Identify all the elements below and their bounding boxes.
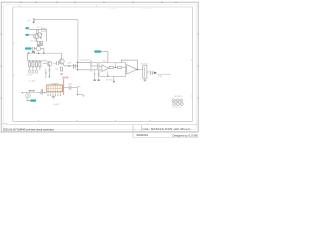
junction dot feedback (115, 67, 116, 68)
IC U3 inner bar (47, 87, 62, 89)
capacitor C8 shunt (94, 70, 96, 79)
wire VR1 bottom (144, 78, 146, 80)
svg-text:1uF: 1uF (68, 83, 72, 85)
capacitor Cc3 (90, 68, 92, 71)
capacitor C5 bias (45, 69, 47, 77)
tick on strip line (146, 123, 148, 126)
op-amp U1 (102, 65, 109, 72)
component X1 (41, 28, 45, 31)
IC U3 pins bottom (48, 92, 61, 95)
capacitor C11 input (41, 91, 43, 95)
svg-text:Designed by S.O.MD: Designed by S.O.MD (173, 134, 198, 138)
capacitor C6 (57, 61, 59, 65)
wire tie vertical (98, 62, 100, 69)
pinout case E (176, 102, 179, 105)
svg-text:(8 Ω): (8 Ω) (158, 76, 162, 78)
node dot q2 (40, 43, 41, 44)
resistor R6 (39, 62, 41, 67)
svg-text:2021.01.26 TL084/2 unit test c: 2021.01.26 TL084/2 unit test circuit cor… (3, 127, 54, 131)
net label AM (teal) (25, 34, 29, 36)
svg-text:1m 1/4: 1m 1/4 (27, 75, 33, 77)
wire antenna horizontal (35, 19, 78, 21)
wire from AM label (29, 34, 34, 36)
wire +9.4V (red) (63, 79, 65, 95)
svg-text:ant: ant (28, 19, 31, 22)
wire antenna vertical drop (77, 20, 79, 63)
potentiometer VR1 (143, 66, 147, 79)
input terminal arrow (22, 92, 24, 94)
node dot q2b (41, 33, 42, 34)
net label FM (teal) (25, 27, 29, 29)
ground T2 (60, 74, 63, 76)
wire drop to rail (43, 48, 45, 53)
IC U3 TL082 (orange) (47, 85, 63, 92)
ground C9 (98, 79, 100, 81)
wire R9 out (121, 66, 125, 68)
wire T1 base (43, 63, 47, 65)
capacitor C1 (33, 47, 35, 50)
capacitor Cc2 (90, 64, 92, 67)
junction dot emitter bus (68, 65, 69, 66)
polarity mark C11 (41, 90, 43, 91)
net label LINE1 (teal) (25, 47, 32, 49)
ground output (82, 95, 84, 98)
op-amp U2 power (127, 65, 137, 75)
pinout case B (176, 99, 179, 102)
svg-text:2010/10/12: 2010/10/12 (136, 133, 148, 137)
ground IC (52, 96, 56, 98)
faint ruler marks top (109, 7, 152, 9)
resistor R2 (41, 41, 43, 45)
junction dot input (44, 92, 45, 93)
title block verticals (133, 125, 141, 138)
full width divider line (0, 131, 198, 133)
outer sheet border (1, 2, 198, 132)
component dark bead (32, 51, 34, 53)
resistor R1 (37, 41, 39, 45)
frame tick left (13, 43, 15, 75)
transistor T1 (47, 61, 52, 66)
wire rail lower (28, 60, 48, 62)
IC U3 internal pin lines (49, 85, 61, 91)
capacitor Cc1 (90, 61, 92, 64)
svg-text:2SC 1815: 2SC 1815 (30, 40, 37, 42)
wire rail upper (28, 52, 62, 54)
capacitor C-ant (33, 18, 35, 21)
wire Q3 emitter right (41, 47, 44, 49)
polarity dot under C-ant (33, 22, 35, 23)
wire from VOL label (101, 51, 108, 53)
wire T2 emitter to bus (63, 63, 78, 66)
transistor Q1 (34, 34, 39, 39)
arrow speaker out (154, 72, 157, 75)
junction dot rail (34, 51, 35, 52)
resistor R9 (118, 66, 122, 68)
capacitor C3 (32, 70, 34, 73)
wire T2 collector up (61, 53, 63, 59)
wire Q3 collector up (37, 44, 39, 47)
wire control left tie (76, 62, 78, 69)
svg-text:(tl 082): (tl 082) (53, 103, 59, 106)
junction dot loop (121, 60, 122, 61)
ground VR1 (143, 80, 146, 82)
resistor R3 (28, 62, 30, 67)
wire input to IC (24, 92, 47, 94)
svg-text:1k: 1k (37, 26, 39, 28)
resistor R4 (32, 62, 34, 67)
svg-text:2SC1815: 2SC1815 (174, 96, 182, 98)
capacitor C12 (69, 86, 71, 90)
capacitor C4 (36, 70, 38, 73)
junction dot U2 out (137, 69, 138, 70)
wire feedback tap (114, 63, 116, 67)
frame ticks top (20, 6, 97, 7)
wire output right (78, 94, 84, 96)
pinout case D (173, 102, 176, 105)
inner margin line (4, 5, 197, 130)
wire IC output (63, 87, 70, 89)
jack J1 (26, 93, 31, 98)
node dot q1 (40, 37, 41, 38)
wire VOL drop (107, 52, 109, 63)
wire feedback loop top (122, 60, 138, 69)
capacitor C2 (29, 70, 31, 73)
wire control line 1 (77, 61, 90, 63)
net label VOL (teal) (94, 50, 101, 52)
wire drop output (77, 86, 79, 94)
resistor R7 (61, 67, 63, 71)
pinout pin dots (173, 100, 183, 105)
border ruler ticks sides (1, 34, 199, 98)
junction dots rail lower (29, 60, 30, 61)
capacitor row lower (29, 67, 40, 70)
svg-text:+9.4V: +9.4V (62, 75, 69, 79)
svg-text:title: NK501S-PDN (AF Mixer): title: NK501S-PDN (AF Mixer) (143, 127, 191, 131)
drawing frame (13, 6, 193, 8)
wire U1 inputs (99, 66, 102, 70)
wire control line 3 (77, 69, 90, 71)
wire resistor bottoms (38, 45, 41, 47)
pinout case A (172, 99, 175, 102)
wire C12 right (71, 87, 78, 89)
junction dot output (77, 94, 78, 95)
capacitor C7 electrolytic (73, 64, 75, 69)
feedback block box (99, 63, 126, 77)
wire U2 inputs (126, 67, 127, 71)
wire bias drop (45, 29, 47, 41)
svg-text:(ca 194): (ca 194) (29, 81, 36, 83)
svg-text:E C B E C B: E C B E C B (172, 107, 182, 109)
junction dot box bottom (107, 75, 108, 76)
frame ticks bottom (39, 120, 151, 122)
wiper VR1 (147, 71, 150, 73)
wire U2 output (137, 69, 143, 71)
net label LINE IN (teal) (30, 99, 36, 101)
frame tick right (191, 60, 193, 96)
wire R8 to R9 (113, 66, 117, 68)
label IN dashes (29, 89, 32, 92)
wire rail link left (27, 53, 29, 61)
svg-text:10uF: 10uF (67, 63, 72, 65)
pinout case C (180, 99, 183, 102)
svg-text:10k: 10k (55, 68, 58, 70)
wire U1 output (108, 66, 111, 68)
IC U3 pins top (50, 84, 59, 85)
junction dots rail upper (28, 53, 29, 54)
transistor Q2 (38, 33, 42, 37)
border ruler ticks top (21, 2, 176, 3)
wire Q1 emitter down (35, 39, 37, 42)
ground C8 (94, 79, 96, 81)
title block bottom line (133, 136, 198, 138)
wire caps to opamp (92, 62, 98, 69)
resistor R0 bias (37, 30, 39, 33)
wire jack to label (27, 97, 30, 100)
bead lead (32, 52, 34, 55)
IC pin pads (48, 94, 61, 97)
pinout case F (180, 102, 183, 105)
wire C1 to Q3 (34, 47, 36, 49)
resistor R5 (35, 62, 37, 67)
wire U1 down lead (107, 72, 109, 77)
ground box lead (113, 81, 115, 83)
wire C10 out (152, 72, 154, 74)
capacitor C10 output (150, 71, 152, 75)
capacitor C9 shunt (98, 70, 100, 79)
revision strip top line (7, 124, 199, 126)
revision strip step (1, 123, 7, 124)
transistor Q3 (36, 47, 40, 51)
transistor T2 (59, 59, 64, 64)
junction dots control (77, 62, 78, 63)
wire T1 emitter down (48, 66, 50, 77)
svg-text:Control (line in): Control (line in) (80, 58, 92, 61)
wire box bottom lead (113, 76, 115, 80)
wire from FM label (29, 28, 47, 30)
stub top (78, 85, 81, 87)
resistor R8 (109, 66, 113, 68)
svg-text:AT7520: AT7520 (106, 78, 112, 81)
